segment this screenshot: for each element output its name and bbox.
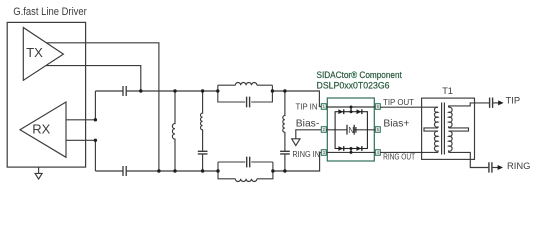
- stub top center: [350, 107, 352, 112]
- pin 4 RING OUT: [375, 150, 380, 156]
- node RX lower: [94, 139, 97, 142]
- capacitor of series LC shunt branch 2: [280, 151, 290, 154]
- labels: [292, 97, 415, 162]
- op-amp TX: [23, 28, 63, 81]
- inductor of series LC shunt branch 2 (x=284.9): [283, 91, 285, 151]
- ground (driver box): [35, 167, 42, 179]
- parallel LC trap (top rail): [218, 85, 273, 102]
- capacitor TIP output: [490, 98, 493, 108]
- op-amp RX: [20, 102, 66, 157]
- wire TIP OUT to transformer: [380, 106, 438, 108]
- node TX upper / bottom rail: [157, 169, 160, 172]
- svg-text:G.fast Line Driver: G.fast Line Driver: [13, 6, 87, 18]
- wire RING arrow line: [492, 167, 499, 169]
- node LC1 / bottom rail: [201, 169, 204, 172]
- svg-text:TIP IN: TIP IN: [296, 101, 318, 111]
- arrow TIP: [498, 100, 503, 105]
- node LC1 / top rail: [201, 89, 204, 92]
- transformer core: [442, 103, 445, 155]
- svg-text:T1: T1: [442, 86, 453, 96]
- wire RING through line: [326, 151, 375, 153]
- node shunt L1 / bottom rail: [173, 169, 176, 172]
- wire Bias line right: [354, 129, 375, 131]
- wire bottom rail (RING): [95, 153, 321, 172]
- node TX lower / top rail: [139, 89, 142, 92]
- capacitor C-top-rail: [123, 86, 126, 96]
- svg-text:Bias-: Bias-: [296, 119, 319, 130]
- transformer secondary winding lower: [449, 131, 453, 152]
- transformer secondary winding upper: [449, 107, 453, 128]
- G.fast Line Driver box: [7, 22, 85, 167]
- svg-text:RING: RING: [507, 160, 530, 171]
- inductor of bottom trap: [235, 179, 257, 182]
- node stub/bottom edge: [350, 147, 353, 150]
- wire secondary top to TIP output: [449, 103, 489, 107]
- svg-text:SIDACtor® Component: SIDACtor® Component: [317, 70, 403, 80]
- pin 5 Bias+: [375, 127, 380, 133]
- junction dots: [94, 89, 287, 172]
- capacitor of top trap: [247, 97, 250, 108]
- pin 6 TIP OUT: [375, 104, 380, 110]
- capacitor RING output: [489, 162, 492, 172]
- node trap-top right: [271, 89, 274, 92]
- diode D1: [338, 109, 343, 114]
- pin 1 TIP IN: [321, 104, 326, 110]
- svg-text:TX: TX: [26, 45, 43, 60]
- diode D2: [357, 109, 362, 114]
- wire RX upper input: [66, 91, 95, 120]
- wire top rail (TIP): [95, 91, 321, 107]
- arrow RING: [498, 165, 503, 170]
- svg-text:TIP OUT: TIP OUT: [383, 97, 415, 107]
- svg-text:N: N: [348, 126, 354, 135]
- capacitor of series LC shunt branch 1: [198, 151, 208, 154]
- pin numbers: [323, 104, 380, 155]
- node LC2 / top rail: [283, 89, 286, 92]
- wire RX lower input: [66, 140, 95, 171]
- pin 2 Bias-: [321, 127, 326, 133]
- transformer primary winding link: [424, 128, 438, 131]
- wire Bias- to ground: [296, 130, 322, 139]
- transformer primary winding lower: [434, 131, 438, 152]
- node trap-top left: [216, 89, 219, 92]
- svg-text:RING OUT: RING OUT: [383, 152, 416, 162]
- wire RING OUT to transformer: [380, 151, 438, 153]
- node shunt L1 / top rail: [173, 89, 176, 92]
- wire TIP arrow line: [493, 102, 499, 104]
- parallel LC trap (bottom rail): [218, 162, 273, 179]
- wire Bias line left: [326, 129, 347, 131]
- node trap-bottom right: [271, 169, 274, 172]
- svg-text:DSLP0xx0T023G6: DSLP0xx0T023G6: [317, 81, 390, 91]
- inductor of top trap: [235, 82, 257, 85]
- svg-text:TIP: TIP: [506, 94, 521, 105]
- node stub/RING: [350, 151, 353, 154]
- svg-text:RING IN: RING IN: [292, 149, 320, 159]
- pin 3 RING IN: [321, 150, 326, 156]
- svg-text:RX: RX: [32, 122, 50, 137]
- diode D4: [357, 146, 362, 151]
- stub bottom center: [350, 149, 352, 153]
- svg-text:Bias+: Bias+: [383, 119, 409, 130]
- inductor shunt L1 (x=175): [172, 91, 175, 171]
- wire TX lower output: [46, 66, 141, 91]
- SIDACtor element bars: [347, 125, 356, 135]
- ground (Bias-): [292, 139, 300, 146]
- wire secondary bottom to RING output: [449, 152, 489, 167]
- SIDACtor U1 package: [327, 98, 374, 161]
- wire TIP through line: [326, 106, 375, 108]
- transformer secondary winding link: [449, 128, 469, 131]
- wire TX upper output: [46, 43, 158, 171]
- inductor of series LC shunt branch 1 (x=202.6): [201, 91, 203, 151]
- transformer primary winding upper: [434, 107, 438, 128]
- node trap-bottom left: [216, 169, 219, 172]
- capacitor of bottom trap: [247, 157, 250, 168]
- capacitor C-bottom-rail: [123, 166, 126, 176]
- node stub/TIP: [350, 106, 353, 109]
- diode D3: [338, 146, 343, 151]
- node stub/top edge: [350, 110, 353, 113]
- transformer T1 box: [422, 98, 475, 159]
- node LC2 / bottom rail: [283, 169, 286, 172]
- node RX upper: [94, 118, 97, 121]
- diode bridge box U1: [335, 112, 367, 149]
